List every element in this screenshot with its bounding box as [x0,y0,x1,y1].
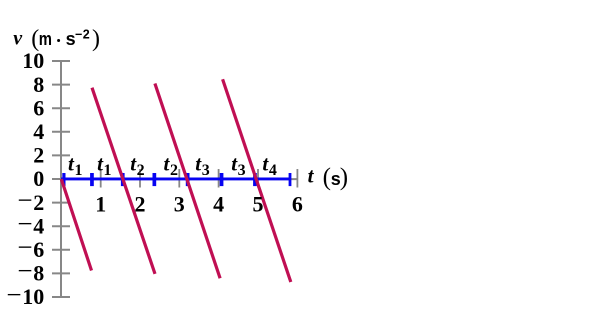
blue tick 5 [220,173,224,186]
svg-text:t1: t1 [97,152,111,179]
svg-text:t2: t2 [164,152,178,179]
y-axis tick v=-10 [52,296,70,298]
blue tick 2 [121,173,125,186]
x-axis tick t=6 [296,169,298,188]
svg-text:1: 1 [95,191,106,216]
crimson ramp 1 [61,179,91,271]
svg-text:t2: t2 [130,152,144,179]
y-axis tick v=8 [52,84,70,86]
x-axis title t (s) [308,163,349,191]
y-axis tick v=10 [52,60,70,62]
svg-text:5: 5 [253,191,264,216]
blue time line [61,177,291,180]
svg-text:8: 8 [33,72,44,97]
blue tick 1 [90,173,94,186]
x-axis tick t=1 [100,169,102,188]
y-axis tick v=-6 [52,249,70,251]
y-axis tick v=2 [52,154,70,156]
svg-text:t: t [308,163,315,187]
blue tick 4 [186,173,190,186]
svg-text:t1: t1 [68,152,82,179]
y-axis tick v=-8 [52,272,70,274]
svg-text:4: 4 [213,191,224,216]
crimson ramp 2 [92,88,155,274]
y-axis tick v=-4 [52,225,70,227]
crimson ramp 4 [223,79,291,282]
blue tick 3 [153,173,157,186]
svg-text:t3: t3 [231,152,245,179]
x-axis gray line [61,178,297,180]
x-axis tick t=2 [139,169,141,188]
svg-text:t4: t4 [262,152,276,179]
svg-text:4: 4 [33,119,44,144]
svg-text:): ) [92,26,100,52]
svg-text:(: ( [323,164,331,191]
blue tick 0 [62,173,65,186]
svg-text:): ) [340,164,348,191]
svg-text:6: 6 [33,95,44,120]
svg-text:6: 6 [292,191,303,216]
svg-text:t3: t3 [195,152,209,179]
y-axis tick v=4 [52,131,70,133]
y-axis tick v=6 [52,107,70,109]
svg-text:v: v [13,27,23,49]
svg-text:2: 2 [33,143,44,168]
svg-text:−10: −10 [6,279,44,309]
svg-text:−2: −2 [75,27,90,41]
crimson ramp 3 [155,84,220,279]
blue tick 6 [253,173,257,186]
x-axis tick t=3 [178,169,180,188]
svg-text:m: m [39,29,52,49]
svg-text:0: 0 [33,166,44,191]
x-axis tick t=5 [257,169,259,188]
svg-text:2: 2 [135,191,146,216]
svg-text:3: 3 [174,191,185,216]
y-axis tick v=0 [52,178,70,180]
x-axis tick t=4 [218,169,220,188]
y-axis line [60,61,62,297]
blue tick 7 (end) [289,173,292,186]
y-axis tick v=-2 [52,202,70,204]
y-axis title v (m s^-2) [13,26,100,52]
